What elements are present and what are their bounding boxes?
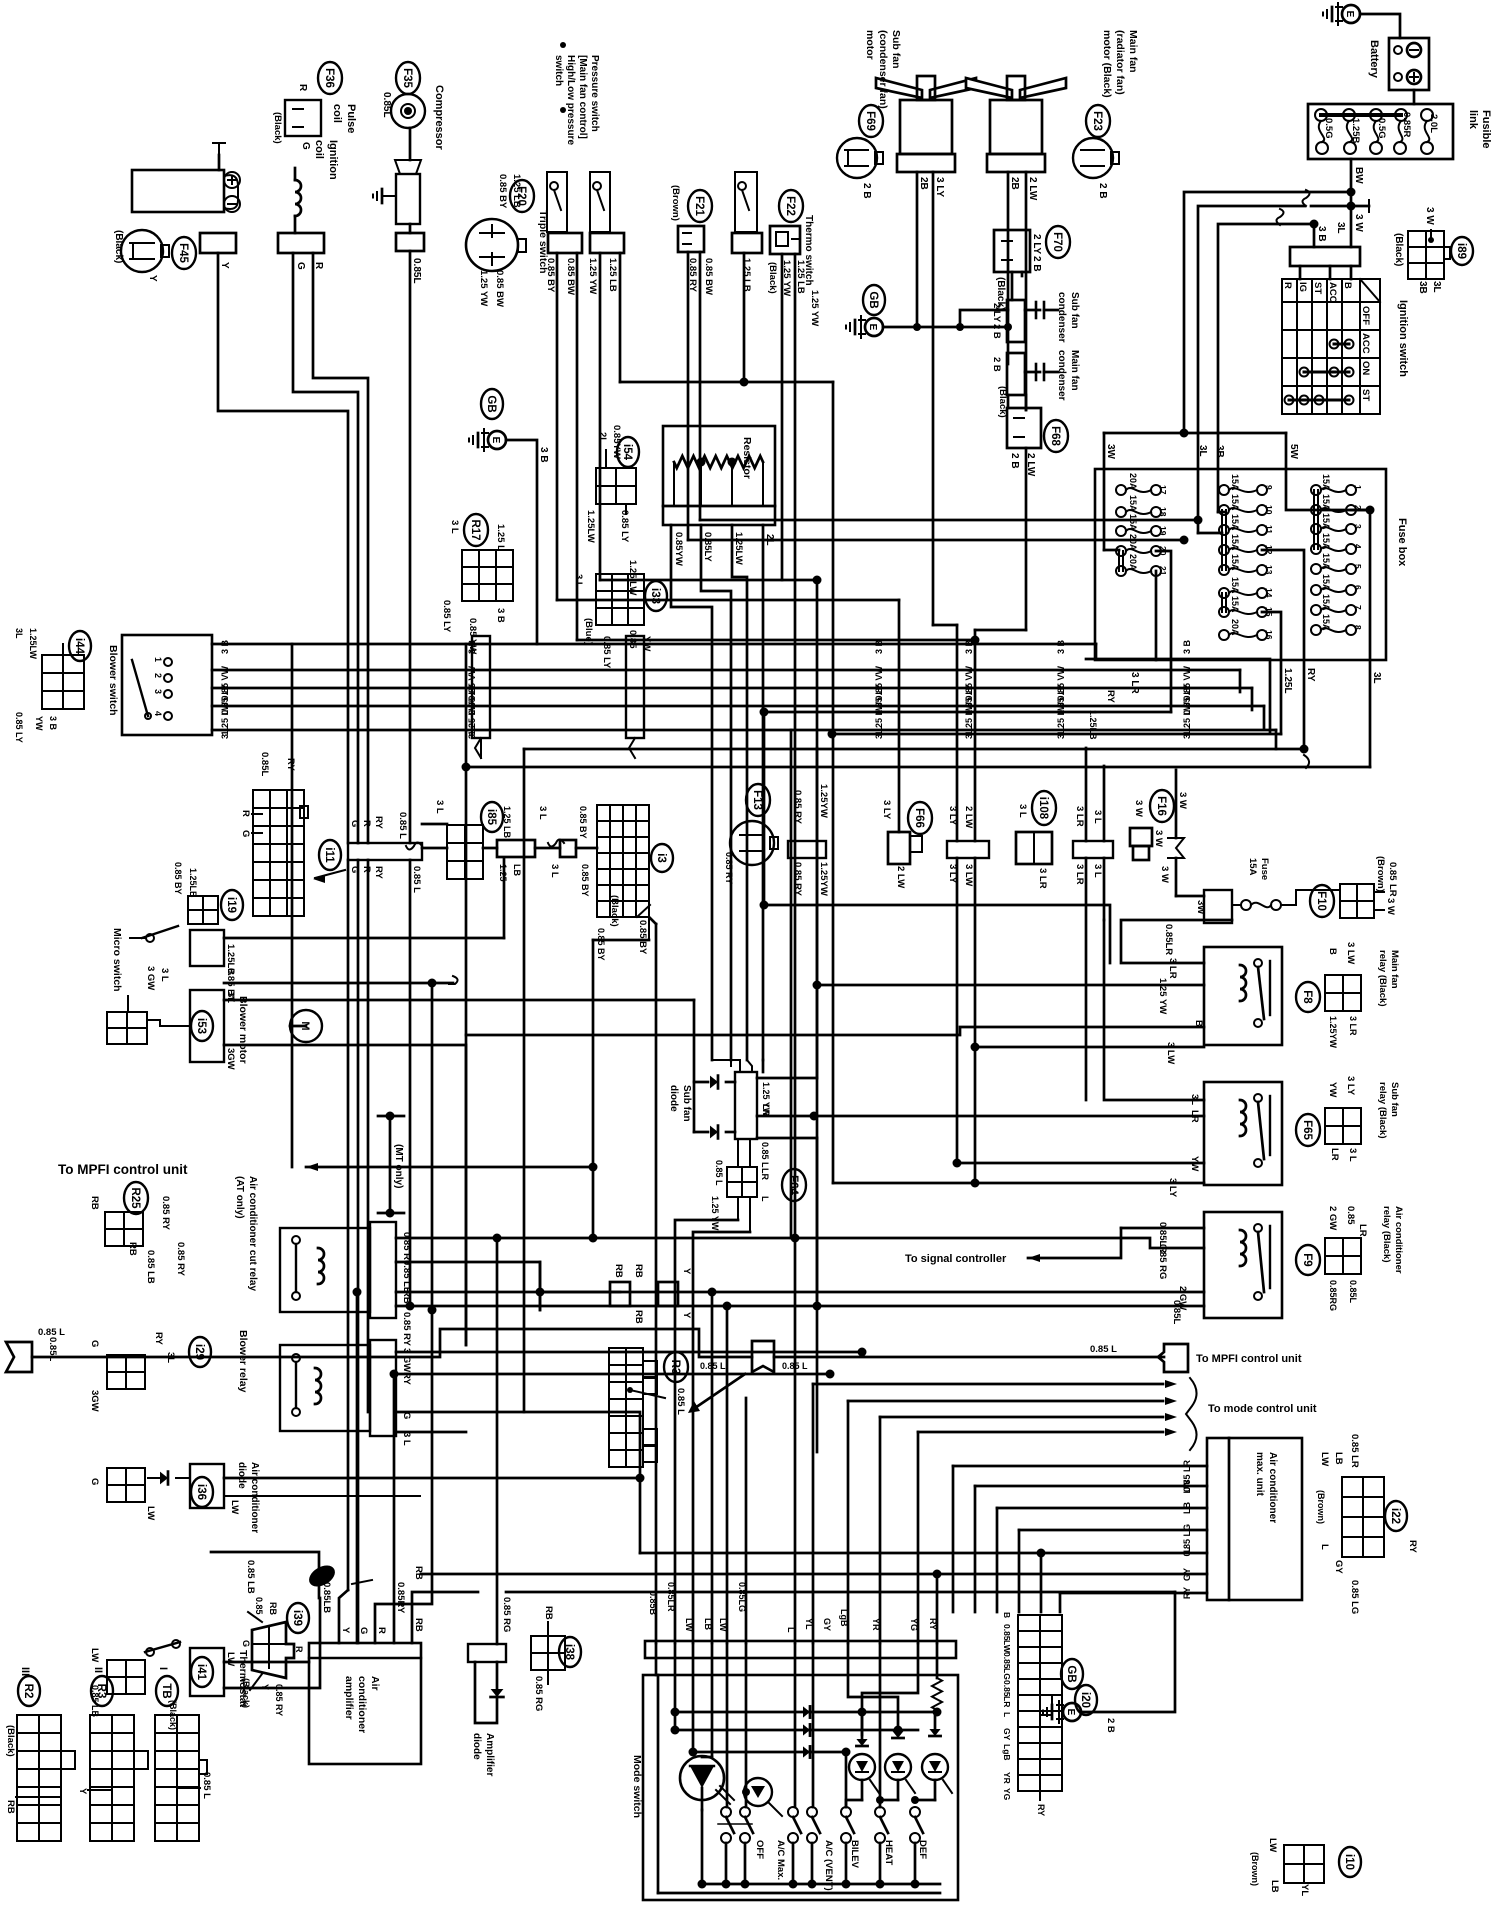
svg-text:3L: 3L (1431, 281, 1442, 293)
svg-text:0.85 LY: 0.85 LY (441, 600, 452, 633)
svg-text:20: 20 (1158, 546, 1168, 556)
svg-text:3L: 3L (1371, 672, 1382, 684)
svg-text:0.85 L: 0.85 L (1090, 1344, 1117, 1355)
svg-text:i36: i36 (195, 1484, 207, 1500)
svg-text:0.85 LB: 0.85 LB (401, 1260, 412, 1294)
svg-text:Fuse: Fuse (1259, 858, 1270, 880)
svg-text:0.85 L: 0.85 L (700, 1361, 726, 1371)
svg-text:5W: 5W (1288, 444, 1299, 460)
svg-text:motor: motor (864, 30, 876, 60)
svg-text:coil: coil (313, 140, 325, 159)
svg-text:1.25 LB: 1.25 LB (741, 258, 752, 292)
svg-text:0.85L: 0.85L (1348, 1280, 1358, 1304)
svg-text:2B: 2B (918, 177, 929, 190)
svg-text:LW: LW (229, 1500, 240, 1514)
svg-text:LB: LB (1269, 1880, 1280, 1893)
svg-text:15: 15 (1264, 607, 1274, 617)
svg-text:BW: BW (1353, 167, 1364, 184)
svg-text:G: G (349, 820, 360, 827)
svg-text:relay (Black): relay (Black) (1377, 1082, 1388, 1139)
svg-text:L: L (760, 1196, 770, 1202)
svg-text:R2: R2 (22, 1684, 34, 1699)
svg-text:LW: LW (1182, 1479, 1192, 1493)
svg-text:13: 13 (1264, 565, 1274, 575)
svg-text:0.85 BY: 0.85 BY (580, 864, 590, 897)
svg-text:Fusible: Fusible (1480, 110, 1492, 149)
svg-text:YR: YR (871, 1618, 881, 1631)
svg-text:1.25LW: 1.25LW (28, 628, 38, 660)
svg-text:IG: IG (1297, 282, 1308, 292)
svg-text:Battery: Battery (1368, 40, 1380, 79)
svg-text:E: E (490, 437, 501, 444)
svg-text:19: 19 (1158, 526, 1168, 536)
svg-text:3 W: 3 W (1153, 830, 1164, 847)
svg-text:GY: GY (1182, 1568, 1192, 1581)
svg-text:15A: 15A (1321, 533, 1331, 550)
svg-text:3L: 3L (165, 1352, 176, 1363)
svg-text:1.25 YW: 1.25 YW (587, 258, 598, 294)
svg-text:10: 10 (1264, 505, 1274, 515)
svg-text:G: G (300, 142, 311, 150)
svg-text:LB: LB (512, 864, 522, 876)
svg-text:To MPFI control unit: To MPFI control unit (58, 1162, 188, 1177)
svg-text:LR: LR (1329, 1148, 1340, 1161)
svg-text:15A: 15A (1128, 495, 1138, 512)
svg-text:RB: RB (127, 1242, 138, 1256)
svg-text:3 L: 3 L (573, 574, 584, 588)
svg-text:i44: i44 (73, 638, 85, 655)
svg-text:LW: LW (718, 1618, 728, 1632)
svg-text:(Brown): (Brown) (1375, 856, 1386, 892)
svg-text:YW: YW (641, 636, 652, 651)
svg-text:3 L: 3 L (1182, 726, 1192, 740)
svg-text:0.85 RY: 0.85 RY (160, 1196, 171, 1231)
svg-text:3 LY: 3 LY (934, 177, 945, 198)
svg-text:B: B (1327, 948, 1338, 955)
svg-text:0.85 BY: 0.85 BY (578, 806, 588, 839)
svg-text:LW: LW (89, 1648, 100, 1662)
svg-text:motor (Black): motor (Black) (1101, 30, 1113, 98)
svg-text:0.85 BY: 0.85 BY (173, 862, 183, 895)
svg-text:F10: F10 (1315, 891, 1327, 911)
svg-text:3 L: 3 L (401, 1432, 412, 1446)
svg-text:Y: Y (681, 1268, 692, 1275)
svg-text:LgB: LgB (1002, 1744, 1012, 1761)
svg-text:0.85 LG: 0.85 LG (1349, 1580, 1360, 1614)
svg-text:ST: ST (1312, 282, 1323, 294)
svg-text:(Black): (Black) (767, 262, 778, 294)
svg-text:Blower relay: Blower relay (237, 1330, 249, 1393)
svg-text:2 LY: 2 LY (991, 303, 1002, 323)
svg-text:2 B: 2 B (861, 183, 872, 199)
svg-text:R17: R17 (469, 519, 481, 540)
svg-text:(Black): (Black) (1393, 233, 1404, 266)
svg-text:Ignition switch: Ignition switch (1397, 300, 1409, 377)
svg-text:LgB: LgB (839, 1609, 849, 1627)
svg-text:LR: LR (1002, 1696, 1012, 1707)
svg-text:3 B: 3 B (1182, 640, 1192, 655)
svg-text:GB: GB (485, 395, 497, 412)
svg-text:3 B: 3 B (874, 640, 884, 655)
svg-text:3 L: 3 L (1092, 864, 1103, 878)
svg-text:2 B: 2 B (1031, 256, 1042, 272)
svg-text:Y: Y (681, 1312, 692, 1319)
svg-text:i29: i29 (193, 1344, 205, 1360)
svg-text:G: G (295, 262, 306, 270)
svg-text:18: 18 (1158, 507, 1168, 517)
svg-text:3: 3 (153, 689, 163, 694)
svg-text:Main fan: Main fan (1069, 350, 1080, 391)
svg-text:Air conditioner cut relay: Air conditioner cut relay (247, 1176, 258, 1291)
svg-text:3 B: 3 B (1056, 640, 1066, 655)
svg-text:YG: YG (909, 1618, 919, 1631)
svg-text:15A: 15A (1321, 553, 1331, 570)
svg-text:R: R (361, 820, 372, 827)
svg-text:2L: 2L (597, 432, 608, 443)
svg-text:20A: 20A (1230, 619, 1240, 636)
svg-text:Sub fan: Sub fan (890, 30, 902, 69)
svg-text:0.85: 0.85 (627, 630, 638, 649)
svg-text:3 B: 3 B (220, 640, 230, 655)
svg-text:2 LY: 2 LY (1031, 234, 1042, 255)
svg-text:i19: i19 (225, 897, 237, 913)
svg-text:15A: 15A (1230, 514, 1240, 531)
svg-text:3GW: 3GW (89, 1390, 100, 1412)
svg-text:0.85 L: 0.85 L (201, 1772, 212, 1799)
svg-text:Sub fan: Sub fan (1389, 1082, 1400, 1117)
svg-text:0.5G: 0.5G (1376, 118, 1387, 139)
svg-text:YR: YR (1002, 1772, 1012, 1784)
svg-text:3 L: 3 L (220, 726, 230, 740)
svg-text:(Black): (Black) (113, 230, 124, 263)
svg-text:Air: Air (369, 1676, 381, 1691)
svg-text:3 LY: 3 LY (1167, 1178, 1178, 1198)
svg-text:1.25YW: 1.25YW (818, 784, 829, 818)
svg-text:LW: LW (684, 1618, 694, 1632)
svg-text:0.85 L: 0.85 L (411, 866, 422, 893)
svg-text:Sub fan: Sub fan (1069, 292, 1080, 329)
svg-text:0.85 BW: 0.85 BW (703, 258, 714, 295)
svg-text:Ignition: Ignition (327, 140, 339, 180)
svg-text:15A: 15A (1230, 474, 1240, 491)
svg-text:3 LR: 3 LR (1037, 868, 1048, 889)
svg-text:20A: 20A (1128, 473, 1138, 490)
svg-text:II: II (92, 1667, 104, 1673)
svg-text:G: G (89, 1340, 100, 1347)
svg-text:A/C Max.: A/C Max. (775, 1840, 786, 1880)
svg-text:5: 5 (1353, 564, 1363, 569)
svg-text:E: E (1065, 1709, 1076, 1716)
svg-text:3 L: 3 L (159, 968, 170, 982)
svg-text:F70: F70 (1051, 232, 1063, 252)
svg-text:RB: RB (268, 1602, 278, 1615)
svg-text:LR: LR (1387, 884, 1398, 897)
svg-text:R: R (297, 84, 308, 92)
svg-text:coil: coil (331, 104, 343, 123)
svg-text:F22: F22 (784, 196, 796, 216)
svg-text:3: 3 (1353, 524, 1363, 529)
svg-text:F35: F35 (401, 68, 413, 88)
svg-text:0.85 LR: 0.85 LR (1349, 1434, 1360, 1468)
svg-text:High/Low pressure: High/Low pressure (565, 55, 576, 145)
svg-text:3 B: 3 B (467, 640, 477, 655)
svg-text:(Black): (Black) (5, 1725, 16, 1757)
svg-text:GY: GY (1333, 1560, 1344, 1574)
svg-text:OFF: OFF (1360, 306, 1371, 325)
svg-text:3 GW: 3 GW (145, 966, 156, 990)
svg-text:0.85 LY: 0.85 LY (14, 712, 24, 743)
svg-text:20A: 20A (1128, 534, 1138, 551)
svg-text:RY: RY (285, 758, 296, 772)
svg-text:1.25YW: 1.25YW (818, 862, 829, 896)
svg-text:LR: LR (761, 1104, 771, 1116)
svg-text:ACC: ACC (1327, 282, 1338, 303)
svg-text:(Brown): (Brown) (670, 185, 681, 221)
svg-text:3 LY: 3 LY (1345, 1076, 1356, 1096)
svg-text:YW: YW (34, 716, 44, 731)
svg-text:B: B (1002, 1612, 1012, 1618)
svg-text:(Blue): (Blue) (583, 618, 594, 645)
svg-text:2 LW: 2 LW (1025, 453, 1036, 477)
svg-text:0.85 LY: 0.85 LY (619, 510, 630, 543)
svg-text:R3: R3 (669, 1360, 681, 1375)
svg-text:2: 2 (153, 673, 163, 678)
svg-text:1.25 LB: 1.25 LB (795, 260, 806, 294)
svg-text:3L: 3L (1335, 222, 1346, 234)
svg-text:(Black): (Black) (272, 112, 283, 144)
svg-text:2B: 2B (1009, 177, 1020, 190)
svg-text:Air conditioner: Air conditioner (249, 1462, 260, 1533)
svg-text:0.85 L: 0.85 L (760, 1142, 770, 1168)
svg-text:15A: 15A (1321, 574, 1331, 591)
svg-text:0.85: 0.85 (1387, 862, 1398, 881)
svg-text:3 W: 3 W (1159, 866, 1170, 883)
svg-text:M: M (299, 1021, 311, 1030)
svg-text:1.25 L: 1.25 L (495, 524, 506, 551)
svg-text:0.85 RY: 0.85 RY (175, 1242, 186, 1277)
svg-text:E: E (867, 324, 878, 331)
svg-text:3 LW: 3 LW (1345, 942, 1356, 964)
svg-text:3 LR: 3 LR (1348, 1016, 1358, 1036)
svg-text:12: 12 (1264, 545, 1274, 555)
svg-text:R: R (361, 866, 372, 873)
svg-text:(AT only): (AT only) (234, 1176, 245, 1219)
svg-text:3W: 3W (1105, 444, 1116, 460)
svg-text:i108: i108 (1037, 797, 1049, 820)
svg-text:I: I (157, 1667, 169, 1670)
svg-text:G: G (240, 830, 251, 837)
svg-text:6: 6 (1353, 585, 1363, 590)
svg-text:1.25LB: 1.25LB (1088, 710, 1098, 740)
svg-text:TB: TB (160, 1683, 172, 1698)
svg-text:3 L: 3 L (537, 806, 548, 820)
svg-text:3 LR: 3 LR (1074, 864, 1085, 885)
svg-text:0.85LY: 0.85LY (702, 532, 713, 562)
svg-text:LR: LR (760, 1168, 770, 1180)
svg-text:1.25 LB: 1.25 LB (511, 174, 522, 208)
svg-text:0.85 BY: 0.85 BY (497, 174, 508, 209)
svg-text:20A: 20A (1128, 554, 1138, 571)
svg-text:(MT only): (MT only) (393, 1144, 404, 1188)
svg-text:GB: GB (867, 291, 879, 308)
svg-text:2 B: 2 B (1097, 183, 1108, 199)
svg-text:3L: 3L (1189, 1094, 1200, 1105)
svg-text:G: G (241, 1640, 251, 1647)
svg-text:0.85 L: 0.85 L (714, 1160, 724, 1186)
svg-text:15A: 15A (1321, 494, 1331, 511)
svg-text:0.85YW: 0.85YW (673, 532, 684, 566)
svg-text:3 B: 3 B (495, 608, 506, 623)
svg-text:Main fan: Main fan (1127, 30, 1139, 73)
svg-text:0.85: 0.85 (1345, 1206, 1356, 1225)
svg-text:2L: 2L (764, 534, 775, 546)
svg-text:i10: i10 (1343, 1854, 1355, 1870)
svg-text:1.25 YW: 1.25 YW (781, 260, 792, 296)
svg-text:0.85 RG: 0.85 RG (1157, 1244, 1168, 1279)
svg-text:i85: i85 (485, 809, 497, 826)
svg-text:OFF: OFF (754, 1840, 765, 1859)
svg-text:0.85R: 0.85R (1401, 112, 1412, 137)
svg-text:3 L: 3 L (874, 726, 884, 740)
svg-text:B: B (1193, 1020, 1204, 1027)
svg-text:i3: i3 (655, 853, 667, 863)
svg-text:R3: R3 (95, 1684, 107, 1699)
svg-text:1.25YW: 1.25YW (1328, 1016, 1338, 1049)
svg-text:3 B: 3 B (1316, 226, 1327, 242)
svg-text:16: 16 (1264, 630, 1274, 640)
svg-text:LG: LG (1002, 1668, 1012, 1680)
svg-text:R: R (294, 1646, 304, 1653)
svg-text:4: 4 (153, 711, 163, 716)
svg-text:(Brown): (Brown) (1316, 1490, 1326, 1524)
svg-text:LW: LW (1319, 1452, 1330, 1466)
svg-text:diode: diode (668, 1085, 679, 1112)
svg-text:amplifier: amplifier (343, 1676, 355, 1720)
svg-text:i89: i89 (1455, 243, 1467, 259)
svg-text:RB: RB (613, 1264, 624, 1278)
svg-text:0.85: 0.85 (1002, 1652, 1012, 1669)
svg-text:3 W: 3 W (1424, 207, 1435, 225)
svg-text:15A: 15A (1230, 534, 1240, 551)
svg-text:L: L (1182, 1547, 1192, 1553)
svg-text:2 LW: 2 LW (963, 806, 974, 828)
svg-text:3 L: 3 L (1092, 810, 1103, 824)
svg-text:Y: Y (147, 275, 158, 282)
svg-text:LW: LW (225, 1652, 236, 1666)
svg-text:LR: LR (1189, 1110, 1200, 1123)
svg-text:3 W: 3 W (1177, 792, 1188, 809)
svg-text:1.25LB: 1.25LB (188, 868, 198, 898)
svg-text:21: 21 (1158, 566, 1168, 576)
svg-text:Y: Y (340, 1627, 351, 1634)
svg-text:i38: i38 (563, 1644, 575, 1661)
svg-text:RB: RB (5, 1800, 16, 1814)
svg-text:Triple switch: Triple switch (537, 210, 549, 274)
svg-text:ST: ST (1360, 389, 1371, 401)
svg-text:0.85L: 0.85L (1171, 1300, 1182, 1324)
svg-text:0.85 RG: 0.85 RG (533, 1676, 544, 1711)
svg-text:3B: 3B (1214, 445, 1225, 458)
svg-text:F45: F45 (177, 243, 189, 263)
svg-text:9: 9 (1264, 485, 1274, 490)
svg-text:Pressure switch: Pressure switch (589, 55, 600, 132)
svg-text:3 B: 3 B (964, 640, 974, 655)
svg-text:LB: LB (1182, 1502, 1192, 1514)
svg-text:3 W: 3 W (1385, 898, 1396, 915)
svg-text:Y: Y (219, 262, 230, 269)
svg-text:8: 8 (1353, 625, 1363, 630)
svg-text:relay (Black): relay (Black) (1381, 1206, 1392, 1263)
svg-text:3 L: 3 L (549, 864, 560, 878)
svg-text:Mode switch: Mode switch (631, 1755, 643, 1818)
svg-text:0.85 BW: 0.85 BW (565, 258, 576, 295)
svg-text:3 L: 3 L (1347, 1148, 1358, 1162)
svg-text:RY: RY (153, 1332, 164, 1346)
svg-text:3 L: 3 L (449, 520, 460, 534)
svg-text:Air conditioner: Air conditioner (1267, 1452, 1278, 1523)
svg-text:G: G (349, 866, 360, 873)
svg-text:1.25LW: 1.25LW (733, 532, 744, 565)
svg-text:GY: GY (1002, 1728, 1012, 1741)
svg-text:3 B: 3 B (48, 716, 58, 731)
svg-text:15A: 15A (1321, 594, 1331, 611)
svg-text:F9: F9 (1301, 1253, 1313, 1266)
svg-text:R25: R25 (129, 1187, 141, 1209)
svg-text:3 LR: 3 LR (1074, 806, 1085, 827)
svg-text:Micro switch: Micro switch (111, 928, 123, 992)
svg-text:i11: i11 (323, 847, 335, 863)
svg-text:F21: F21 (693, 196, 705, 216)
svg-text:15A: 15A (1230, 577, 1240, 594)
svg-text:0.85 RY: 0.85 RY (274, 1684, 284, 1716)
svg-text:i39: i39 (291, 1610, 303, 1626)
svg-text:0.85 BW: 0.85 BW (494, 270, 505, 307)
svg-text:F69: F69 (864, 111, 876, 131)
svg-text:1.25 YW: 1.25 YW (710, 1196, 720, 1231)
svg-text:(Black): (Black) (609, 895, 620, 927)
svg-text:F64: F64 (787, 1175, 799, 1195)
svg-text:diode: diode (236, 1462, 247, 1489)
svg-text:BILEV: BILEV (849, 1840, 860, 1869)
svg-text:Compressor: Compressor (433, 85, 445, 151)
svg-text:1: 1 (153, 657, 163, 662)
svg-text:R: R (313, 262, 324, 270)
svg-text:1.25B: 1.25B (1350, 118, 1361, 143)
svg-text:link: link (1467, 110, 1479, 130)
svg-text:3 GW: 3 GW (401, 1348, 412, 1372)
svg-text:3 L: 3 L (964, 726, 974, 740)
svg-text:0.85 RY: 0.85 RY (724, 852, 734, 884)
svg-text:3L: 3L (1197, 445, 1208, 457)
svg-text:i22: i22 (1389, 1508, 1401, 1524)
svg-text:0.85LR: 0.85LR (666, 1582, 676, 1612)
svg-text:HEAT: HEAT (883, 1840, 894, 1865)
svg-text:3 W: 3 W (1353, 214, 1364, 232)
svg-text:RB: RB (413, 1566, 424, 1580)
svg-text:Amplifier: Amplifier (484, 1733, 495, 1776)
svg-text:0.85L: 0.85L (381, 92, 392, 118)
svg-text:15A: 15A (1230, 494, 1240, 511)
svg-text:3 L: 3 L (1056, 726, 1066, 740)
svg-text:0.85: 0.85 (1002, 1680, 1012, 1697)
svg-text:0.85 L: 0.85 L (675, 1388, 686, 1415)
svg-text:1.25 LW: 1.25 LW (627, 560, 638, 595)
svg-text:2 B: 2 B (1105, 1718, 1116, 1733)
svg-text:F65: F65 (1301, 1120, 1313, 1140)
svg-text:15A: 15A (1321, 614, 1331, 631)
svg-text:R: R (240, 810, 251, 817)
svg-text:0.5G: 0.5G (1323, 118, 1334, 139)
